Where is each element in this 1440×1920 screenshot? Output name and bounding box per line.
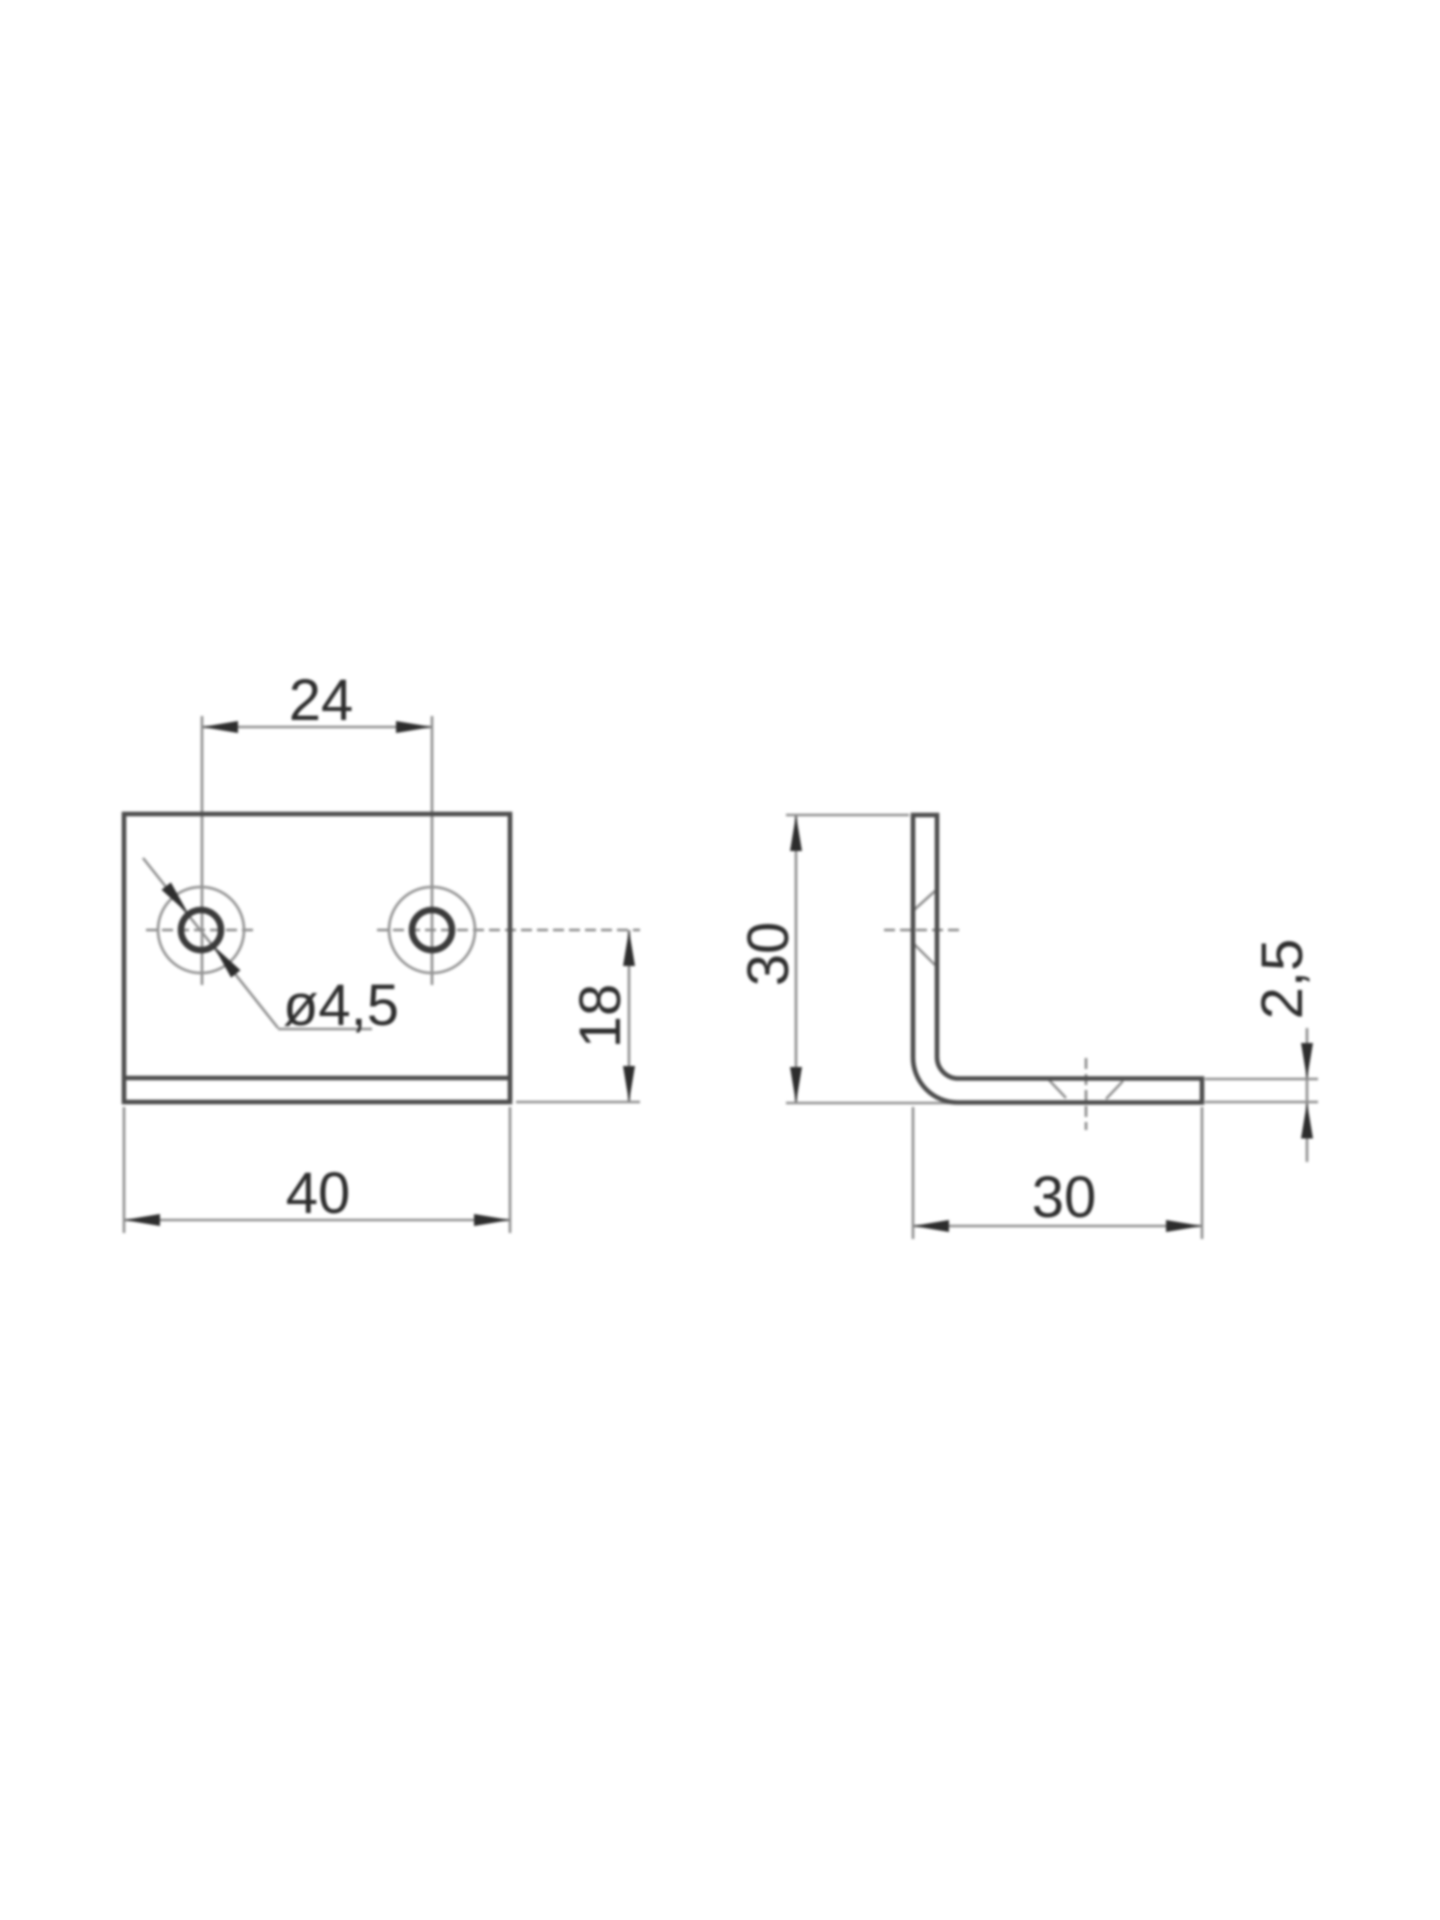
svg-text:30: 30 <box>736 922 801 987</box>
svg-text:ø4,5: ø4,5 <box>283 973 399 1038</box>
svg-text:30: 30 <box>1032 1165 1097 1230</box>
svg-text:18: 18 <box>568 984 633 1049</box>
svg-text:40: 40 <box>286 1161 351 1226</box>
svg-text:24: 24 <box>289 668 354 733</box>
svg-text:2,5: 2,5 <box>1250 939 1315 1020</box>
